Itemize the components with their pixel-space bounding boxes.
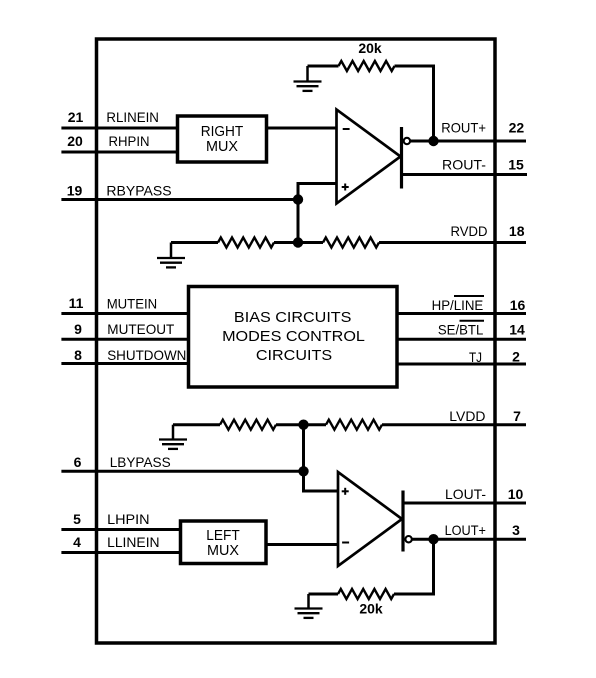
svg-text:RIGHT: RIGHT [201,124,244,140]
junction RVDD divider node [293,237,303,247]
svg-text:21: 21 [68,109,84,125]
svg-text:RBYPASS: RBYPASS [106,183,171,199]
svg-text:CIRCUITS: CIRCUITS [256,347,332,364]
junction LVDD divider node [298,420,308,430]
output bar (right op-amp) [400,127,403,189]
svg-text:RHPIN: RHPIN [109,133,150,149]
pin 7 wire LVDD [382,423,526,426]
svg-text:10: 10 [508,486,524,502]
resistor (RVDD divider left) [218,238,274,248]
junction LBYPASS node [298,466,308,476]
wire mux output to op-amp inverting input [266,543,338,546]
resistor (LVDD divider left) [220,420,276,430]
pin 19 wire RBYPASS [61,198,298,201]
svg-text:15: 15 [508,157,524,173]
resistor 20k (left feedback) [338,589,394,599]
svg-text:22: 22 [509,120,525,136]
block U3 BIAS CIRCUITS MODES CONTROL CIRCUITS [189,287,398,388]
svg-text:LBYPASS: LBYPASS [110,454,171,470]
op-amp U5 (left power amp) [338,472,402,566]
svg-text:6: 6 [74,454,82,470]
wire divider to node [276,423,326,426]
pin 4 wire LLINEIN [61,551,180,554]
svg-text:LLINEIN: LLINEIN [107,534,160,550]
pin 18 wire RVDD [379,241,526,244]
wire divider node [274,241,323,244]
ground (bottom 20k resistor) [295,594,323,618]
svg-text:LEFT: LEFT [206,528,240,544]
svg-text:MUX: MUX [206,139,238,155]
junction RBYPASS node [293,194,303,204]
svg-text:20k: 20k [359,601,383,617]
svg-text:LHPIN: LHPIN [107,511,150,527]
svg-text:14: 14 [509,321,525,337]
pin 22 wire ROUT+ [411,140,527,143]
svg-text:4: 4 [73,534,81,550]
svg-text:ROUT+: ROUT+ [441,120,486,136]
inverting bubble (ROUT+) [404,138,410,144]
overbar on BTL [460,320,485,322]
svg-text:8: 8 [74,347,82,363]
pin 16 wire HP/LINE [397,312,526,315]
pin 9 wire MUTEOUT [61,338,189,341]
pin 8 wire SHUTDOWN [61,362,189,365]
svg-text:BIAS CIRCUITS: BIAS CIRCUITS [234,309,352,326]
pin 3 wire LOUT+ [412,538,526,541]
pin 21 wire RLINEIN [61,127,177,130]
wire feedback resistor to ROUT+ node [395,66,434,141]
svg-text:2: 2 [512,349,520,365]
svg-text:RVDD: RVDD [451,223,488,239]
outer box (device boundary) [97,39,496,643]
mux U4 LEFT MUX [181,521,267,564]
wire mux output to op-amp inverting input [267,127,337,130]
svg-text:RLINEIN: RLINEIN [106,109,158,125]
op-amp U2 (right power amp) [337,110,401,204]
svg-text:20k: 20k [358,40,382,56]
pin 20 wire RHPIN [61,151,177,154]
svg-text:MODES CONTROL: MODES CONTROL [222,328,365,345]
svg-text:MUX: MUX [207,543,239,559]
resistor (RVDD divider right) [323,238,379,248]
svg-text:9: 9 [74,321,82,337]
ground (LVDD divider) [159,425,187,449]
svg-text:3: 3 [512,522,520,538]
svg-text:19: 19 [67,183,83,199]
svg-text:SHUTDOWN: SHUTDOWN [107,347,186,363]
svg-text:HP/LINE: HP/LINE [432,297,484,313]
svg-text:SE/BTL: SE/BTL [438,321,484,337]
svg-text:ROUT-: ROUT- [442,157,486,173]
pin 11 wire MUTEIN [61,312,189,315]
pin 5 wire LHPIN [61,528,180,531]
svg-text:MUTEIN: MUTEIN [107,295,158,311]
pin 15 wire ROUT- [402,173,528,176]
svg-text:20: 20 [67,133,83,149]
pin 14 wire SE/BTL [397,338,526,341]
svg-text:5: 5 [73,511,81,527]
svg-text:LVDD: LVDD [449,408,485,424]
resistor (LVDD divider right) [326,420,382,430]
svg-text:7: 7 [513,408,521,424]
pin 6 wire LBYPASS [61,470,303,473]
resistor 20k (right feedback) [339,61,395,71]
mux U1 RIGHT MUX [178,116,267,162]
svg-text:11: 11 [69,295,84,311]
svg-text:16: 16 [510,297,526,313]
wire feedback resistor to ground [309,593,339,596]
svg-text:18: 18 [509,223,525,239]
wire LVDD node down to non-inverting input [304,425,339,491]
svg-text:MUTEOUT: MUTEOUT [107,321,174,337]
junction LOUT+ feedback [428,534,438,544]
svg-text:LOUT-: LOUT- [445,486,486,502]
pin 10 wire LOUT- [403,502,526,505]
wire op-amp non-inverting input [298,184,337,243]
ground (top 20k resistor) [294,66,322,91]
svg-text:TJ: TJ [469,349,482,365]
junction ROUT+ feedback [428,136,438,146]
wire ground to LVDD divider resistor [173,423,220,426]
ground (RVDD divider) [157,243,185,268]
output bar (left op-amp) [401,491,404,552]
wire ground to feedback resistor [308,65,339,68]
wire LOUT+ node to feedback resistor [394,539,434,594]
overbar on LINE [454,295,484,297]
wire ground to divider resistor [171,241,218,244]
inverting bubble (LOUT+) [405,536,411,542]
svg-text:LOUT+: LOUT+ [445,522,486,538]
pin 2 wire TJ [397,363,526,366]
